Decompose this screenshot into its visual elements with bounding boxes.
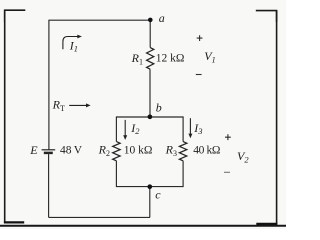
wire bottom: [49, 216, 150, 218]
wire box left lower: [115, 161, 117, 187]
frame top-right bracket: [256, 11, 277, 22]
wire box right upper: [182, 116, 184, 141]
resistor R3: [179, 142, 186, 161]
frame right border: [276, 11, 278, 225]
current arrow I3: [188, 118, 192, 138]
svg-text:E: E: [29, 143, 38, 157]
minus V2: [224, 171, 230, 173]
plus V1: [197, 35, 203, 41]
frame left border: [4, 10, 6, 223]
wire parallel-box bottom: [116, 186, 183, 188]
svg-text:10 kΩ: 10 kΩ: [124, 145, 153, 157]
svg-text:40 kΩ: 40 kΩ: [193, 145, 220, 157]
wire node c to bottom: [149, 187, 151, 218]
minus V1: [196, 74, 202, 76]
battery E: [42, 150, 56, 153]
wire left lower (battery to bottom): [48, 154, 50, 217]
wire box right lower: [182, 161, 184, 187]
resistor R1: [147, 48, 154, 70]
node b: [148, 114, 153, 119]
svg-text:b: b: [156, 101, 162, 115]
wire R1 to node b: [149, 69, 151, 117]
svg-text:a: a: [159, 11, 165, 25]
wire box left upper: [115, 116, 117, 141]
wire left upper (to battery): [48, 20, 50, 150]
node c: [147, 184, 152, 189]
frame bottom rule: [0, 225, 286, 227]
node a: [148, 18, 153, 23]
wire top (E+ to node a): [49, 19, 150, 21]
frame top-left bracket: [5, 10, 26, 22]
frame bottom-right bracket: [256, 223, 277, 225]
plus V2: [225, 134, 231, 140]
svg-text:12 kΩ: 12 kΩ: [156, 53, 185, 65]
current arrow I2: [123, 120, 127, 140]
svg-text:c: c: [155, 187, 161, 201]
wire parallel-box top: [116, 116, 183, 118]
frame bottom-left bracket: [4, 221, 24, 223]
resistor R2: [113, 142, 120, 161]
wire node a to R1: [149, 20, 151, 48]
svg-text:48 V: 48 V: [60, 145, 83, 157]
arrow RT: [69, 103, 90, 107]
current arrow I1: [63, 35, 82, 50]
